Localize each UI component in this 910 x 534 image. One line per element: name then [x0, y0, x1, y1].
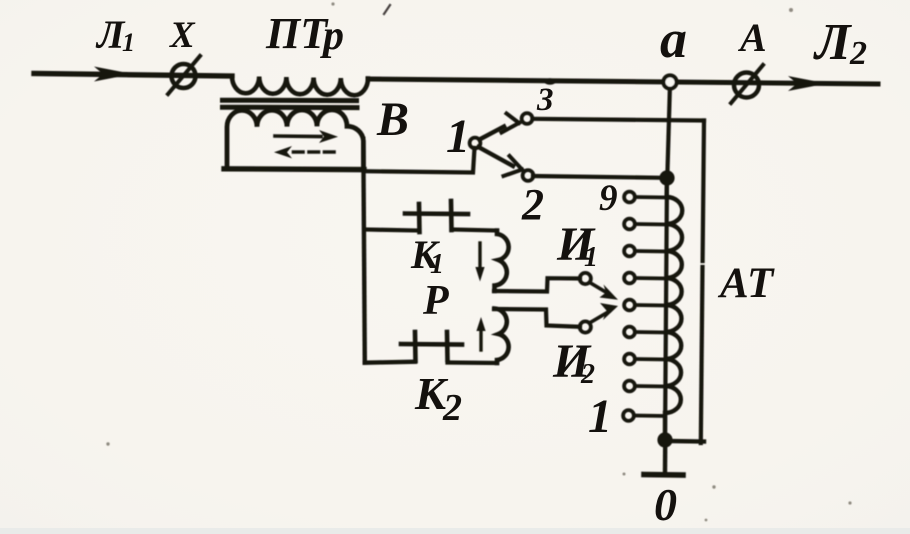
transformer ПТр core bars	[223, 98, 357, 103]
switch arm to contact 2	[479, 147, 514, 166]
svg-text:2: 2	[521, 180, 544, 229]
svg-text:АТ: АТ	[717, 260, 775, 307]
wire: left rail (secondary right side down to K2 branch)	[363, 139, 365, 363]
svg-text:а: а	[660, 9, 687, 69]
svg-text:ПТ: ПТ	[265, 9, 329, 58]
svg-text:2: 2	[442, 387, 462, 429]
svg-text:0: 0	[654, 479, 677, 530]
switch common contact 1	[470, 138, 481, 149]
svg-text:2: 2	[580, 359, 595, 390]
contact I2	[580, 321, 591, 332]
svg-text:Р: Р	[422, 278, 449, 324]
svg-text:р: р	[320, 13, 344, 59]
paper specks	[106, 2, 851, 521]
wire: main line Л1 to ПТр	[34, 74, 232, 77]
svg-text:А: А	[737, 15, 767, 60]
junction dot at top of AT winding	[659, 170, 674, 185]
wire: contact 2 to node a vertical	[533, 176, 662, 178]
AT tap 6	[624, 273, 635, 284]
arrow: down arrow at upper coil	[478, 243, 481, 271]
arrow: solid right arrow inside loop	[275, 134, 321, 138]
AT tap 1	[623, 410, 634, 421]
svg-text:1: 1	[584, 242, 598, 273]
svg-text:Л: Л	[813, 14, 852, 71]
svg-text:3: 3	[536, 82, 554, 118]
switch contact 2	[523, 170, 534, 181]
stray pen tick near ПТр	[384, 5, 390, 14]
AT tap 7	[624, 246, 635, 257]
svg-text:В: В	[376, 93, 409, 146]
junction dot at bottom of AT winding	[657, 432, 672, 447]
ink blob on main line	[544, 78, 556, 84]
wire: bottom dot to right vertical	[666, 439, 704, 444]
relay P coil lower half	[495, 309, 509, 364]
AT tap 2	[624, 381, 635, 392]
AT tap 3	[624, 354, 635, 365]
terminal X (slashed circle)	[172, 64, 196, 88]
svg-text:9: 9	[599, 178, 618, 219]
wire: AT winding core vertical	[665, 178, 667, 440]
transformer ПТр secondary winding (wattmeter loop B)	[227, 110, 364, 169]
arrow: up arrow at lower coil	[479, 329, 482, 350]
relay contact K1	[417, 204, 422, 232]
terminal A (slashed circle)	[734, 73, 759, 98]
arrow: dashed left arrow inside loop	[291, 150, 334, 154]
switch contact 3	[522, 113, 533, 124]
wire: right vertical (AT top link), small scan gap	[703, 121, 704, 262]
wire: K1 branch from rail	[365, 230, 420, 231]
arrow: I2 pointer to tap	[590, 312, 609, 323]
relay contact K2	[413, 332, 418, 361]
wire: K1 to relay coil upper	[452, 230, 498, 231]
contact I1	[580, 273, 591, 284]
ground lead 0	[663, 444, 668, 472]
AT tap 9	[624, 192, 635, 203]
wire: contact 3 to right vertical	[533, 119, 705, 121]
arrow: I1 pointer to tap	[590, 283, 609, 295]
AT tap 5	[624, 300, 635, 311]
wire: ПТр to node a and on to Л2	[368, 79, 878, 84]
svg-text:X: X	[169, 15, 196, 56]
switch arm to contact 3	[480, 127, 505, 140]
node a	[667, 84, 670, 177]
wire: secondary loop bottom	[224, 166, 364, 172]
arrow: current direction on Л1 line	[94, 67, 133, 82]
wire: K2 branch from rail	[365, 362, 415, 363]
autotransformer AT winding	[665, 178, 682, 440]
relay P coil upper half	[495, 231, 509, 292]
wire: K2 to relay coil lower	[448, 360, 498, 365]
bottom scan edge	[0, 528, 910, 534]
arrow: current direction on Л2 line	[788, 76, 827, 91]
AT tap 8	[624, 219, 635, 230]
wire: lower coil to I2	[494, 309, 580, 327]
wire: rail to switch common	[364, 148, 475, 173]
svg-text:1: 1	[588, 390, 612, 443]
AT tap 4	[624, 327, 635, 338]
wire: upper coil to I1	[494, 278, 580, 291]
transformer ПТр primary winding	[232, 76, 368, 95]
svg-text:1: 1	[122, 28, 135, 57]
svg-text:1: 1	[430, 249, 444, 280]
svg-text:2: 2	[849, 35, 867, 72]
svg-text:1: 1	[446, 110, 470, 163]
